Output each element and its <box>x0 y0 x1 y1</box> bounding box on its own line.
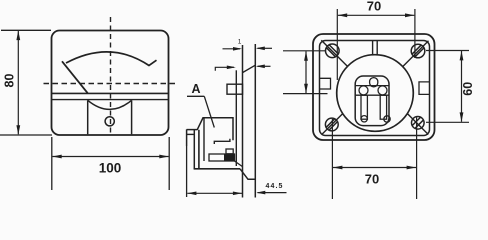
arrowhead panel thickness left-pointing <box>256 191 265 195</box>
front view outer case <box>52 31 169 136</box>
arrowhead rear dim60 down <box>460 112 464 122</box>
arrowhead dim80 up <box>16 31 20 40</box>
arrowhead rear top70 right <box>405 13 415 17</box>
side view body chamfer and top <box>197 118 233 140</box>
horizontal centerline <box>44 83 178 85</box>
dim80 top extension line <box>1 29 51 31</box>
label A leader <box>204 96 214 127</box>
side view inner box <box>209 154 235 161</box>
side bottom dim line <box>187 192 242 194</box>
movement crossbar lower <box>356 94 389 96</box>
slot top-left <box>327 45 339 57</box>
side view terminal step box <box>226 149 233 154</box>
rear dim bottom70 line <box>333 167 416 169</box>
side bottom dim extension <box>186 146 188 197</box>
side view lower step <box>235 161 243 167</box>
svg-text:70: 70 <box>367 0 381 13</box>
recess left wall <box>87 100 89 134</box>
side view terminal block <box>224 154 235 161</box>
arrowhead dim100 left <box>52 155 62 159</box>
lower panel top line <box>52 99 168 101</box>
rear dim60 top extension <box>426 50 469 52</box>
movement top slot <box>370 78 378 87</box>
side panel thickness arrow line <box>258 192 287 194</box>
left side notch <box>320 78 331 89</box>
side view body left edge <box>198 130 200 169</box>
slot top-right <box>412 45 424 57</box>
rear dim bottom70 right extension <box>416 118 418 200</box>
side dim mid left arrow line <box>215 67 234 71</box>
rear dim top70 left extension <box>336 9 338 80</box>
jewel screw right <box>384 116 390 122</box>
needle <box>62 61 88 93</box>
side view inner front vertical <box>203 118 205 161</box>
rear left dim line <box>305 51 307 93</box>
terminal right <box>378 86 387 95</box>
screw bottom-left <box>325 118 338 131</box>
dim80 line <box>17 31 19 134</box>
side dim top left arrow line <box>223 48 241 50</box>
rear view top stem <box>373 41 378 55</box>
dim100 right extension line <box>168 137 170 190</box>
diagonal bottom-left <box>322 114 343 135</box>
zero adjust screw <box>105 117 114 126</box>
dim80 bottom extension line <box>0 134 52 136</box>
side view bezel rear edge <box>235 70 237 166</box>
side view panel rear line <box>254 44 256 198</box>
arrowhead rear left dim up <box>304 51 308 61</box>
side view inner shelf <box>214 139 230 144</box>
side dim mid right arrow line <box>258 65 271 67</box>
arrowhead rear left dim down <box>304 84 308 94</box>
arrowhead rear bottom70 left <box>333 166 343 170</box>
svg-text:A: A <box>191 82 200 96</box>
screw top-left <box>326 44 340 58</box>
diagonal bottom-right <box>407 114 428 135</box>
svg-text:60: 60 <box>461 82 475 96</box>
arrowhead dim100 right <box>159 155 169 159</box>
right side notch <box>419 82 430 95</box>
rear view central circle <box>337 55 414 132</box>
arrowhead side mid-right left-pointing <box>256 65 265 69</box>
diagonal top-left <box>321 40 347 66</box>
recess right wall <box>131 100 133 134</box>
label A underline <box>187 95 204 97</box>
dim100 left extension line <box>51 137 53 190</box>
arrowhead rear top70 left <box>338 13 348 17</box>
side view rear bump inner line <box>187 133 195 135</box>
svg-text:70: 70 <box>365 172 379 187</box>
arrowhead side bottom dim right <box>233 192 242 196</box>
slot bottom-right <box>412 117 424 129</box>
jewel screw left <box>361 116 367 122</box>
movement crossbar upper <box>356 85 389 87</box>
slot bottom-left <box>326 119 338 131</box>
rear view outer case <box>313 34 435 140</box>
arrowhead side mid-left right-pointing <box>227 66 236 70</box>
dim100 line <box>53 156 169 158</box>
side view body bottom <box>194 168 240 170</box>
rear dim top70 line <box>338 14 415 16</box>
svg-text:1: 1 <box>238 39 242 46</box>
movement block <box>355 76 389 126</box>
left leg <box>361 95 367 119</box>
svg-text:80: 80 <box>3 74 17 88</box>
rear view inner face <box>320 41 430 136</box>
diagonal top-right <box>403 41 429 67</box>
screw bottom-right <box>412 117 425 130</box>
side view stud tab <box>227 84 243 94</box>
side dim top right arrow line <box>258 47 273 49</box>
right leg <box>380 95 386 119</box>
arrowhead side bottom dim left <box>187 192 196 196</box>
rear left dim top extension <box>283 50 326 52</box>
scale arc <box>66 52 157 66</box>
rear dim60 line <box>461 51 463 122</box>
screw top-right <box>411 44 425 58</box>
rear dim60 bottom extension <box>426 121 469 123</box>
rear dim bottom70 left extension <box>331 119 333 199</box>
side view rear bump top <box>187 129 198 131</box>
arrowhead rear dim60 up <box>460 51 464 61</box>
arrowhead side top-right left-pointing <box>256 47 265 51</box>
side view rear bump outer edge <box>186 129 188 146</box>
side view rear bump inner edge <box>193 129 195 168</box>
svg-text:100: 100 <box>99 161 122 176</box>
side view panel front line <box>242 45 244 198</box>
dial window bottom line <box>52 92 168 94</box>
recess concave arc <box>88 100 132 109</box>
side view bezel slant <box>243 65 256 72</box>
rear left dim bottom extension <box>283 93 328 95</box>
arrowhead rear bottom70 right <box>407 166 417 170</box>
rear dim top70 right extension <box>414 9 416 58</box>
vertical centerline <box>110 17 112 135</box>
side view bottom chamfer <box>240 169 255 180</box>
arrowhead side top-left right-pointing <box>233 47 242 51</box>
svg-text:44.5: 44.5 <box>265 183 283 190</box>
terminal left <box>359 86 368 95</box>
arrowhead dim80 down <box>16 125 20 135</box>
